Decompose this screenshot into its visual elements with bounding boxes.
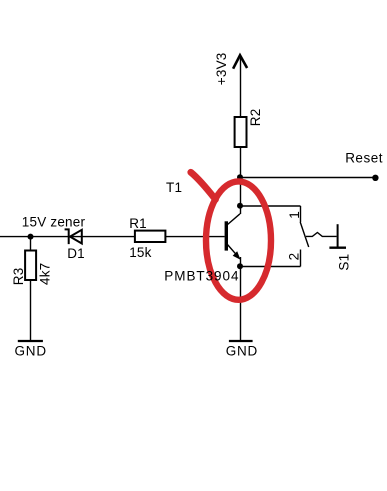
svg-text:GND: GND [226, 344, 258, 359]
svg-text:Reset: Reset [345, 151, 383, 166]
svg-text:GND: GND [15, 344, 47, 359]
svg-text:15k: 15k [129, 245, 151, 260]
svg-text:R2: R2 [248, 109, 263, 127]
svg-text:R3: R3 [11, 268, 26, 286]
svg-text:+3V3: +3V3 [214, 52, 229, 85]
svg-text:15V zener: 15V zener [22, 215, 86, 230]
svg-text:4k7: 4k7 [38, 263, 53, 285]
svg-text:1: 1 [287, 211, 302, 219]
svg-text:S1: S1 [336, 254, 351, 271]
svg-text:PMBT3904: PMBT3904 [164, 268, 239, 283]
svg-text:R1: R1 [129, 216, 147, 231]
svg-text:T1: T1 [166, 180, 182, 195]
svg-text:D1: D1 [67, 246, 85, 261]
svg-text:2: 2 [287, 253, 302, 261]
